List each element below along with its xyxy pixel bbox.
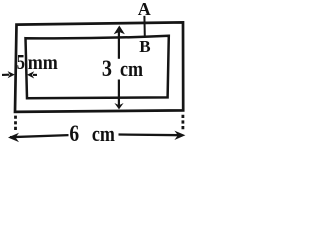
outer rectangle <box>15 22 183 112</box>
right dotted extension <box>181 115 184 131</box>
6cm dimension line right segment <box>119 133 182 136</box>
6cm dimension line left segment <box>10 135 69 137</box>
svg-text:6: 6 <box>69 120 79 146</box>
left dotted extension <box>14 116 17 132</box>
svg-text:cm: cm <box>92 122 115 146</box>
left arrowhead of 6cm <box>8 133 19 142</box>
down arrowhead <box>114 103 123 109</box>
svg-text:3: 3 <box>102 56 112 81</box>
3cm dimension line upper segment <box>118 28 120 59</box>
svg-text:5: 5 <box>17 51 25 74</box>
3cm dimension line lower segment <box>118 80 120 107</box>
svg-text:B: B <box>139 37 150 56</box>
svg-text:cm: cm <box>120 58 143 82</box>
5mm left arrow <box>2 74 9 76</box>
svg-text:mm: mm <box>28 52 58 75</box>
inner rectangle <box>26 36 169 98</box>
right arrowhead of 6cm <box>174 131 185 140</box>
up arrowhead <box>114 26 125 35</box>
5mm right arrow <box>33 74 37 76</box>
tick from A down to inner top edge <box>143 16 145 37</box>
svg-text:A: A <box>138 0 151 19</box>
